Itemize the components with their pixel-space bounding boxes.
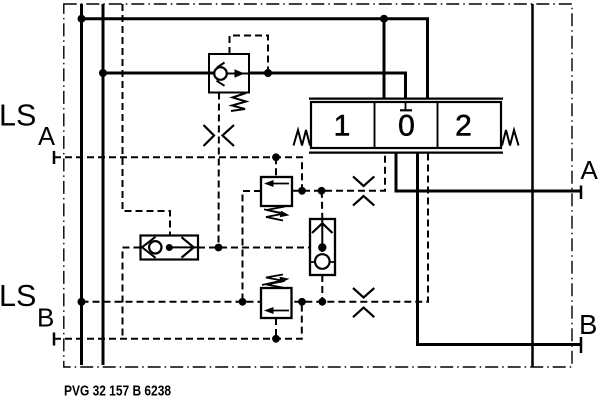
spool valve divider right [437, 102, 439, 148]
pilot wire: RV2 left port to P [82, 301, 262, 303]
svg-text:PVG 32 157 B 6238: PVG 32 157 B 6238 [64, 383, 171, 400]
shuttle check valve V2 stem [321, 219, 323, 252]
node: junction pilot tap [264, 69, 272, 77]
node: B pilot / shuttle check bottom [318, 298, 326, 306]
node: junction P / top line [78, 15, 86, 23]
node: RV1 drain / B pilot [239, 298, 247, 306]
pilot wire: V1 bottom drop to shuttle output [218, 93, 221, 248]
spool valve bottom rail [309, 151, 503, 153]
tank line T (left vertical 2) [102, 4, 105, 365]
LS pilot line (dashed vertical, lower) [123, 248, 141, 339]
check valve V1 seat [217, 63, 225, 86]
pilot wire: shuttle output [198, 247, 310, 249]
shuttle check valve V2 seat ticks [310, 261, 335, 263]
svg-text:LS: LS [0, 99, 36, 133]
svg-text:LS: LS [0, 279, 36, 313]
LS B pilot wire [54, 302, 302, 339]
shuttle check valve V2 chevron [312, 223, 333, 233]
relief valve RV1 adjust arrow [264, 209, 283, 214]
relief valve RV2 arrow [270, 310, 289, 312]
orifice O2 on A pilot [353, 176, 374, 205]
node: A pilot / LS A [298, 187, 306, 195]
svg-text:1: 1 [334, 110, 351, 143]
relief valve RV2 adjust arrow [262, 280, 283, 285]
pilot wire: V1 top to outlet [230, 36, 269, 74]
pilot wire: V2 top [321, 191, 324, 219]
orifice O3 on B pilot [353, 288, 374, 317]
LS shuttle valve S1 seat [142, 237, 156, 258]
wire: spool feed drop [383, 19, 386, 100]
terminal tick LS B [53, 333, 56, 346]
work port B line [418, 152, 582, 345]
check valve V1 ball [214, 67, 227, 80]
relief valve RV1 body [261, 177, 292, 206]
enclosure dash-dot frame [64, 4, 572, 367]
pilot wire: V2 bottom [321, 275, 323, 302]
node: P / B pilot [78, 298, 86, 306]
terminal tick B [580, 337, 583, 353]
LS shuttle valve S1 ball [149, 241, 161, 253]
spool valve body [311, 102, 501, 148]
svg-text:A: A [581, 155, 599, 185]
pilot wire: spool B pilot drop [292, 154, 429, 302]
terminal tick LS A [53, 151, 56, 164]
node: junction top line / spool feed [380, 15, 388, 23]
node: S1 output [166, 244, 173, 251]
shuttle check valve V2 ball [315, 254, 330, 269]
node: V2 stem junction [318, 243, 326, 251]
node: B pilot / LS B riser [298, 298, 306, 306]
LS pilot line (dashed vertical, upper) [123, 4, 171, 236]
pilot wire: RV1 right to spool A pilot [292, 154, 385, 191]
spool spring left [294, 130, 311, 146]
svg-text:0: 0 [398, 110, 415, 143]
wire: check valve outlet to spool [249, 73, 406, 100]
orifice O1 on vertical pilot [204, 125, 235, 146]
LS shuttle valve S1 arrow [169, 246, 198, 248]
node: LS A / relief RV1 tap [272, 153, 280, 161]
spool spring right [502, 130, 519, 146]
shuttle check valve V2 body [310, 219, 335, 275]
wire: P supply top horizontal [82, 19, 428, 100]
node: junction T / second line [99, 69, 107, 77]
spool valve top rail [309, 97, 503, 99]
pilot wire: RV2 bottom port [275, 318, 277, 339]
relief valve RV1 spring [266, 207, 285, 221]
LS shuttle valve S1 body [141, 236, 199, 260]
check valve V1 body [209, 54, 249, 93]
check valve V1 spring [231, 93, 246, 111]
spool valve divider left [374, 102, 376, 148]
pilot wire: RV1 left port drop [243, 191, 262, 302]
node: A pilot / shuttle check top [318, 187, 326, 195]
relief valve RV2 body [261, 288, 292, 318]
node: LS B / RV2 bottom [272, 335, 280, 343]
pump line P (left vertical 1) [80, 4, 83, 365]
LS A pilot wire [54, 157, 302, 191]
svg-text:A: A [38, 123, 55, 151]
relief valve RV1 arrow [270, 183, 289, 185]
svg-text:2: 2 [455, 110, 472, 143]
tank symbol in position 0 [405, 102, 407, 110]
node: shuttle output / check drop [215, 244, 223, 252]
svg-text:B: B [37, 303, 54, 333]
terminal tick A [580, 186, 583, 200]
work port A line [396, 152, 581, 191]
svg-text:B: B [579, 309, 597, 340]
pilot wire: RV1 top port [275, 157, 277, 177]
check valve V1 flow arrow [227, 73, 249, 75]
wire: second horizontal through check valve [103, 72, 215, 75]
relief valve RV2 spring [266, 275, 285, 289]
tank return line (right vertical) [531, 4, 534, 367]
